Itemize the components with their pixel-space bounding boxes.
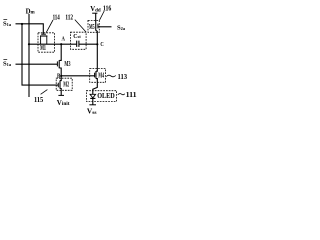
svg-text:116: 116 (103, 4, 112, 12)
power terminal bar Vss (89, 104, 96, 106)
junction dot S1a branch (21, 23, 23, 25)
svg-text:Vdd: Vdd (90, 6, 101, 14)
wire node A row: Dm to Cst left plate (29, 43, 76, 45)
transistor M2 gate bar (57, 83, 59, 88)
wire node B down to M2 drain (60, 76, 61, 81)
wire M2 source down to Vinit terminal (60, 89, 61, 96)
svg-text:A: A (62, 36, 66, 43)
transistor M5 channel bar (95, 22, 97, 30)
pointer line for label 116 (100, 11, 105, 20)
wire Vdd lead down to M5 (95, 13, 97, 22)
wire M4 source down with jog to OLED anode (93, 79, 98, 95)
dashed box 112 around Cst (71, 32, 87, 49)
transistor M1 channel and legs (40, 35, 47, 37)
svg-text:113: 113 (118, 73, 128, 81)
svg-text:S1a: S1a (3, 20, 12, 27)
power terminal bar Vdd (92, 12, 97, 14)
dashed box 115 around M2 (56, 78, 72, 90)
wire M5 gate lead to S2a (98, 26, 112, 28)
wire Dm data line vertical (28, 14, 30, 97)
svg-text:115: 115 (34, 96, 44, 104)
dashed box 116 around M5 (88, 20, 99, 32)
overline on S1a bottom (3, 59, 7, 61)
wire node B row to M4 gate (61, 75, 94, 77)
pointer line for label 114 (46, 20, 53, 33)
svg-text:Cst: Cst (73, 34, 81, 40)
dashed box 114 around M1 (38, 33, 55, 52)
wire M3 source to node B (60, 68, 62, 76)
junction dot Dm / M1 row (28, 43, 30, 45)
transistor M5 gate bar (97, 24, 99, 29)
dashed box 111 around OLED (86, 91, 116, 102)
wire S1a top scan line to M1 gate (16, 24, 44, 34)
power terminal bar Vinit (58, 94, 64, 96)
transistor M1 gate bar (41, 33, 46, 35)
junction dot node C (96, 43, 98, 45)
svg-text:M2: M2 (63, 82, 69, 89)
svg-text:C: C (100, 41, 104, 48)
dashed box 113 around M4 (90, 69, 106, 83)
svg-text:112: 112 (65, 13, 73, 21)
svg-text:Vinit: Vinit (57, 99, 70, 107)
svg-text:111: 111 (126, 91, 137, 99)
junction dot node B (60, 75, 62, 77)
svg-text:B: B (57, 73, 61, 80)
pointer line for label 112 (75, 20, 86, 32)
wire S1a bottom scan line to M3 gate (16, 63, 58, 65)
svg-text:OLED: OLED (97, 92, 115, 100)
svg-text:114: 114 (53, 14, 60, 22)
wire S1a branch down to M2 gate (22, 24, 58, 85)
svg-text:M3: M3 (64, 61, 70, 68)
wire node C down to M4 drain (96, 44, 97, 71)
junction dot node A (60, 43, 62, 45)
overline on S1a top (3, 19, 7, 21)
svg-text:S2a: S2a (117, 25, 126, 32)
transistor M3 channel bar (58, 60, 60, 68)
wire Cst right plate to node C (79, 43, 97, 45)
wire OLED cathode to Vss terminal (92, 98, 94, 104)
transistor M4 gate bar (94, 73, 96, 78)
svg-text:M4: M4 (98, 72, 104, 79)
pointer tilde for label 111 (118, 94, 125, 95)
transistor M2 channel bar (59, 80, 61, 88)
OLED diode symbol (90, 94, 96, 98)
pointer tilde for label 113 (106, 75, 116, 77)
transistor M4 channel bar (95, 71, 97, 79)
svg-text:Dm: Dm (26, 8, 36, 15)
svg-text:Vss: Vss (87, 106, 97, 116)
wire M5 source to node C (96, 30, 98, 44)
transistor M3 gate bar (56, 61, 58, 66)
pointer line for label 115 (41, 90, 48, 95)
capacitor Cst plates (77, 41, 79, 47)
svg-text:S1a: S1a (3, 60, 12, 67)
svg-text:M1: M1 (40, 45, 46, 52)
svg-text:M5: M5 (89, 24, 95, 31)
wire node A down to M3 drain (60, 44, 62, 60)
